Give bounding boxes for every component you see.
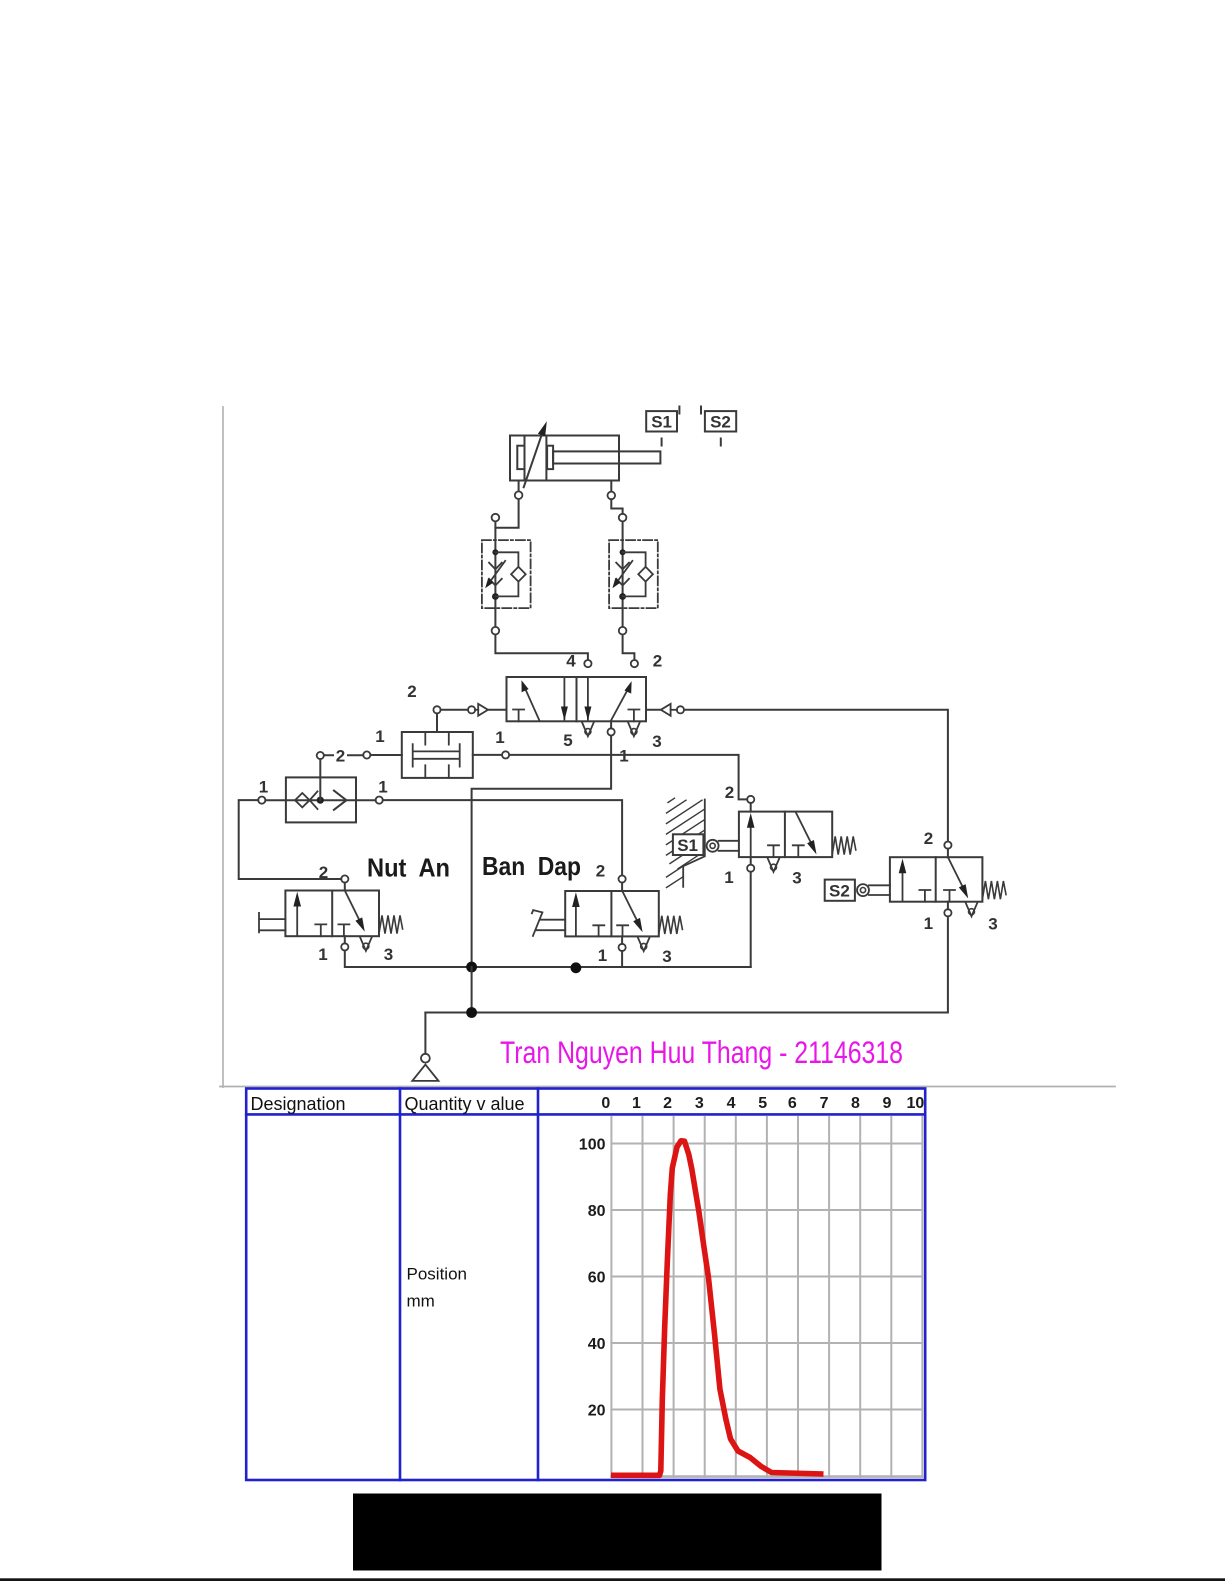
wire right pilot to valve S2 port 2	[684, 710, 948, 842]
S1 roller	[707, 840, 719, 852]
shuttle valve right chevron	[334, 791, 347, 810]
svg-text:2: 2	[653, 652, 662, 671]
1V1 adjust arrow	[489, 561, 506, 584]
1V1 main flow line	[494, 522, 496, 627]
svg-text:2: 2	[336, 747, 345, 766]
one-way flow control valve 1V2 dash-dot box	[609, 540, 658, 608]
svg-text:S2: S2	[710, 413, 731, 432]
cylinder right port stub	[610, 481, 612, 492]
svg-text:10: 10	[907, 1095, 925, 1112]
AND valve comb teeth	[425, 732, 449, 778]
S1 label box	[673, 834, 704, 855]
5/2 right pilot port circle	[677, 706, 684, 713]
1V1 bypass branch	[495, 552, 518, 567]
S1 left box flow arrow up (1 to 2)	[750, 820, 752, 856]
AND valve top port circle	[433, 706, 440, 713]
compressed air source triangle	[412, 1065, 438, 1081]
S2 return spring	[982, 881, 1006, 899]
throttle valve 1V2 top port circle	[619, 514, 627, 522]
one-way flow control valve 1V1 dash-dot box	[482, 540, 531, 608]
Ban Dap return spring	[659, 916, 683, 934]
svg-text:Tran Nguyen Huu Thang - 211463: Tran Nguyen Huu Thang - 21146318	[500, 1034, 903, 1070]
S1 right box diagonal arrow	[796, 813, 812, 845]
svg-text:Quantity v alue: Quantity v alue	[405, 1094, 525, 1114]
5/2 right pilot triangle	[646, 709, 661, 711]
svg-text:5: 5	[563, 731, 572, 750]
schematic frame bottom edge	[220, 1086, 1115, 1088]
svg-text:1: 1	[318, 945, 327, 964]
wire left pilot to AND valve output	[441, 709, 468, 711]
S1 chamber divider	[784, 812, 786, 858]
AND valve top stub	[436, 713, 438, 732]
5/2 left box diagonal flow arrow	[525, 688, 540, 721]
chart baseline axis	[611, 1475, 922, 1478]
two-pressure AND valve body	[402, 732, 473, 778]
1V2 bypass branch	[623, 552, 646, 567]
shuttle valve right port circle	[376, 797, 383, 804]
1V1 throttle chevrons	[489, 563, 502, 570]
wire 1V1 to 5/2 valve port 4	[495, 635, 588, 660]
S2 left box blocked T	[919, 890, 930, 902]
cylinder left port circle	[515, 491, 523, 499]
5/2 left box blocked port T	[513, 710, 524, 722]
svg-text:4: 4	[727, 1095, 736, 1112]
censor black rectangle	[353, 1494, 882, 1571]
cylinder cushion adjust arrow	[524, 430, 544, 488]
time axis numbers	[601, 1095, 924, 1112]
Nut An port 1 stub and circle	[344, 936, 346, 943]
wire 1V2 to 5/2 valve port 2	[623, 635, 635, 660]
chart grid vertical lines	[611, 1117, 922, 1477]
ruler tick below S2	[720, 439, 722, 446]
table header separator	[246, 1113, 925, 1116]
5/2 port 1 stub and circle	[610, 721, 612, 728]
shuttle valve output stub	[319, 759, 321, 800]
svg-text:100: 100	[579, 1137, 606, 1154]
Ban Dap left box flow arrow up	[575, 900, 577, 936]
1V1 bottom port circle	[492, 627, 500, 635]
svg-text:4: 4	[566, 652, 576, 671]
wire S2 port 1 to supply bus 2	[425, 916, 948, 1012]
svg-text:2: 2	[924, 829, 933, 848]
S2 roller links	[869, 885, 890, 895]
Ban Dap port 1 stub and circle	[621, 936, 623, 943]
Nut An port 2 circle	[341, 875, 348, 882]
1V1 lower junction dot	[492, 593, 499, 600]
Nut An left box blocked T	[315, 924, 326, 936]
value axis numbers	[579, 1137, 606, 1420]
1V1 upper junction dot	[492, 549, 498, 555]
schematic frame left edge	[222, 407, 224, 1087]
shuttle valve center junction dot	[317, 797, 324, 804]
svg-text:mm: mm	[407, 1292, 435, 1311]
5/2 exhaust 3 silencer	[628, 722, 640, 736]
ruler tick left of S2	[700, 407, 702, 414]
wire cylinder right port to throttle valve	[611, 500, 622, 514]
svg-text:1: 1	[259, 778, 268, 797]
svg-text:Ban Dap: Ban Dap	[482, 851, 581, 881]
port 1 label at supply line crossing	[618, 747, 631, 762]
svg-text:9: 9	[883, 1095, 892, 1112]
wire shuttle output to AND valve left port	[324, 754, 363, 756]
svg-text:5: 5	[758, 1095, 767, 1112]
svg-text:2: 2	[407, 682, 416, 701]
5/2 left box down flow line with arrow	[563, 677, 565, 720]
Ban Dap exhaust 3	[638, 937, 650, 951]
1V2 lower junction dot	[619, 593, 626, 600]
Ban Dap right box blocked T	[617, 925, 628, 936]
5/2 right box down flow line with arrow (4 to 5)	[587, 677, 589, 720]
svg-text:Position: Position	[407, 1265, 467, 1284]
Ban Dap pedal actuator	[532, 910, 565, 936]
chart grid horizontal lines	[611, 1144, 922, 1410]
cylinder cushion block	[517, 446, 524, 469]
svg-text:1: 1	[598, 946, 607, 965]
S2 port 1 stub and circle	[947, 902, 949, 910]
limit position box S2	[705, 411, 736, 431]
table column divider 1	[399, 1089, 402, 1481]
svg-text:40: 40	[588, 1336, 606, 1353]
compressed air supply drop	[424, 1013, 426, 1054]
1V2 adjust arrow	[616, 561, 633, 584]
Nut An right box blocked T	[338, 924, 349, 936]
wire cylinder left port to throttle valve	[495, 500, 518, 528]
wire AND valve right port to valve S1 port 2	[509, 755, 747, 800]
wire shuttle right port to Ban Dap valve port 2	[383, 800, 622, 875]
svg-text:1: 1	[632, 1095, 641, 1112]
wire Ban Dap port 1 to supply bus	[621, 951, 623, 967]
svg-text:2: 2	[663, 1095, 672, 1112]
throttle valve 1V1 top port circle	[492, 514, 500, 522]
AND valve piston element	[413, 744, 460, 767]
shuttle valve left check arms	[310, 791, 318, 809]
svg-text:7: 7	[820, 1095, 829, 1112]
1V2 upper junction dot	[620, 549, 626, 555]
Ban Dap chamber divider	[610, 891, 612, 936]
ruler tick below S1	[661, 439, 663, 446]
svg-text:1: 1	[495, 728, 504, 747]
valve S2 3/2 roller body (rest)	[890, 857, 983, 902]
Nut An right box diagonal exhaust arrow	[345, 891, 361, 923]
svg-text:60: 60	[588, 1270, 606, 1287]
ruler tick right of S1	[678, 407, 680, 414]
svg-text:80: 80	[588, 1203, 606, 1220]
svg-text:1: 1	[378, 778, 387, 797]
valve 1S2 Ban Dap 3/2 body	[565, 891, 659, 936]
valve S1 port 2 circle	[747, 796, 754, 803]
S1 roller links	[719, 841, 739, 851]
bus 1 junction dot B	[571, 962, 582, 973]
cylinder right port circle	[608, 492, 616, 500]
svg-text:3: 3	[792, 869, 801, 888]
S1 return spring	[832, 836, 856, 854]
shuttle valve output port circle	[317, 752, 324, 759]
Nut An left box flow arrow up	[296, 899, 298, 935]
1V2 main flow line	[622, 522, 624, 627]
Ban Dap port 2 circle	[619, 875, 626, 882]
red position curve	[611, 1141, 824, 1476]
S2 right box diagonal exhaust arrow	[948, 857, 964, 889]
cylinder left end cap line	[524, 436, 526, 481]
svg-text:0: 0	[601, 1095, 610, 1112]
svg-text:Designation: Designation	[251, 1094, 346, 1114]
valve 1S1 Nut An 3/2 body	[285, 891, 379, 937]
shuttle valve left port circle	[258, 797, 265, 804]
1V2 throttle chevrons	[616, 563, 629, 570]
cylinder 1A (double-acting) body	[510, 436, 619, 481]
5/2 valve chamber divider	[576, 677, 578, 721]
shuttle valve OR body	[286, 777, 356, 822]
Nut An push button actuator	[259, 913, 285, 933]
limit position box S1	[646, 411, 677, 431]
bottom page rule	[0, 1578, 1225, 1581]
Nut An chamber divider	[331, 891, 333, 937]
1V2 check valve diamond	[638, 567, 653, 582]
5/2 right box diagonal flow arrow (1 to 2)	[611, 689, 628, 721]
svg-text:1: 1	[724, 868, 733, 887]
wire S1 port 1 to supply bus	[750, 872, 752, 967]
svg-text:6: 6	[788, 1095, 797, 1112]
svg-text:S1: S1	[651, 413, 672, 432]
5/2 directional valve 1V3 body	[507, 677, 647, 721]
AND valve right stub	[473, 754, 502, 756]
S2 left box flow arrow up	[902, 866, 904, 901]
svg-text:3: 3	[652, 732, 661, 751]
Ban Dap left box blocked T	[593, 925, 604, 936]
svg-text:S1: S1	[677, 836, 698, 855]
supply port circle	[421, 1054, 430, 1063]
S1 left box blocked T	[768, 845, 779, 857]
AND valve left port circle	[363, 751, 370, 758]
bus 2 junction dot	[466, 1007, 477, 1018]
table column divider 2	[537, 1089, 540, 1481]
cylinder piston rod	[553, 451, 660, 463]
S2 port 2 circle	[944, 842, 951, 849]
valve S1 3/2 roller body (actuated)	[739, 812, 832, 858]
5/2 right box blocked port T	[628, 710, 639, 722]
wire shuttle left port to Nut An valve port 2	[239, 800, 342, 879]
S1 port 2 stub	[750, 803, 752, 812]
cylinder piston plate	[547, 446, 553, 469]
svg-text:3: 3	[662, 947, 671, 966]
svg-text:1: 1	[619, 747, 628, 766]
1V1 check valve diamond	[511, 567, 526, 582]
5/2 left pilot triangle	[488, 709, 507, 711]
supply bus 1	[345, 951, 751, 968]
S1 port 1 stub and circle	[750, 857, 752, 865]
svg-text:S2: S2	[829, 882, 850, 901]
S2 chamber divider	[935, 857, 937, 902]
wall cam hatching for S1	[683, 800, 705, 887]
svg-text:Nut An: Nut An	[367, 853, 450, 883]
AND valve left stub	[370, 754, 401, 756]
5/2 exhaust 5 silencer	[582, 722, 594, 736]
Nut An exhaust 3	[360, 937, 372, 951]
Nut An return spring	[379, 915, 403, 933]
svg-text:3: 3	[695, 1095, 704, 1112]
S2 exhaust 3	[966, 902, 978, 916]
5/2 left pilot port circle	[468, 706, 475, 713]
shuttle valve left check diamond	[295, 793, 310, 807]
svg-text:1: 1	[375, 727, 384, 746]
riser between buses	[471, 967, 473, 1013]
S1 right box blocked T	[793, 845, 804, 857]
bus 1 junction dot A	[466, 962, 477, 973]
S2 roller	[857, 884, 869, 896]
1V2 bottom port circle	[619, 627, 627, 635]
AND valve right port circle	[502, 751, 509, 758]
svg-text:3: 3	[988, 915, 997, 934]
S1 exhaust 3	[768, 858, 780, 872]
svg-text:1: 1	[924, 914, 933, 933]
shuttle valve through line	[265, 799, 375, 801]
table outer border blue	[246, 1089, 925, 1481]
svg-text:20: 20	[588, 1403, 606, 1420]
svg-text:8: 8	[851, 1095, 860, 1112]
svg-text:2: 2	[596, 862, 605, 881]
port 4 circle	[584, 660, 591, 667]
S2 right box blocked T	[944, 890, 955, 902]
S2 label box	[825, 880, 855, 901]
cylinder piston wall	[545, 436, 547, 481]
shuttle output port 2 label	[334, 747, 347, 762]
port 2 circle (top of 5/2)	[631, 660, 638, 667]
svg-text:2: 2	[319, 863, 328, 882]
Ban Dap right box diagonal exhaust arrow	[622, 891, 638, 923]
svg-text:3: 3	[384, 945, 393, 964]
wire 5/2 port 1 to supply bus	[472, 736, 611, 968]
svg-text:2: 2	[725, 783, 734, 802]
cylinder left port stub	[518, 481, 520, 492]
